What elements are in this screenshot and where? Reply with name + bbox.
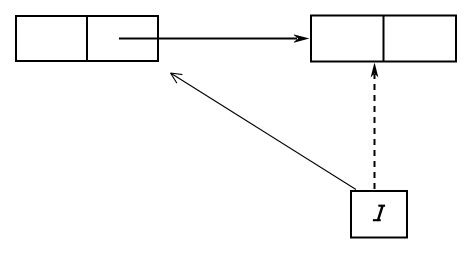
dashed arrow wire (I box to box2) xyxy=(374,74,376,189)
diagonal arrow wire (I box to box1) xyxy=(171,73,357,190)
label I xyxy=(373,205,385,222)
box I xyxy=(351,191,407,238)
node box 1 divider xyxy=(86,15,88,62)
diagonal arrow head barb upper xyxy=(171,73,183,75)
diagonal arrow head barb lower xyxy=(171,73,177,83)
node box 1 xyxy=(16,16,158,61)
pointer arrow wire (box1 to box2) xyxy=(119,38,297,40)
node box 2 xyxy=(311,16,456,62)
dashed arrow head xyxy=(371,64,378,77)
pointer arrow head xyxy=(294,35,308,43)
node box 2 divider xyxy=(383,15,385,63)
